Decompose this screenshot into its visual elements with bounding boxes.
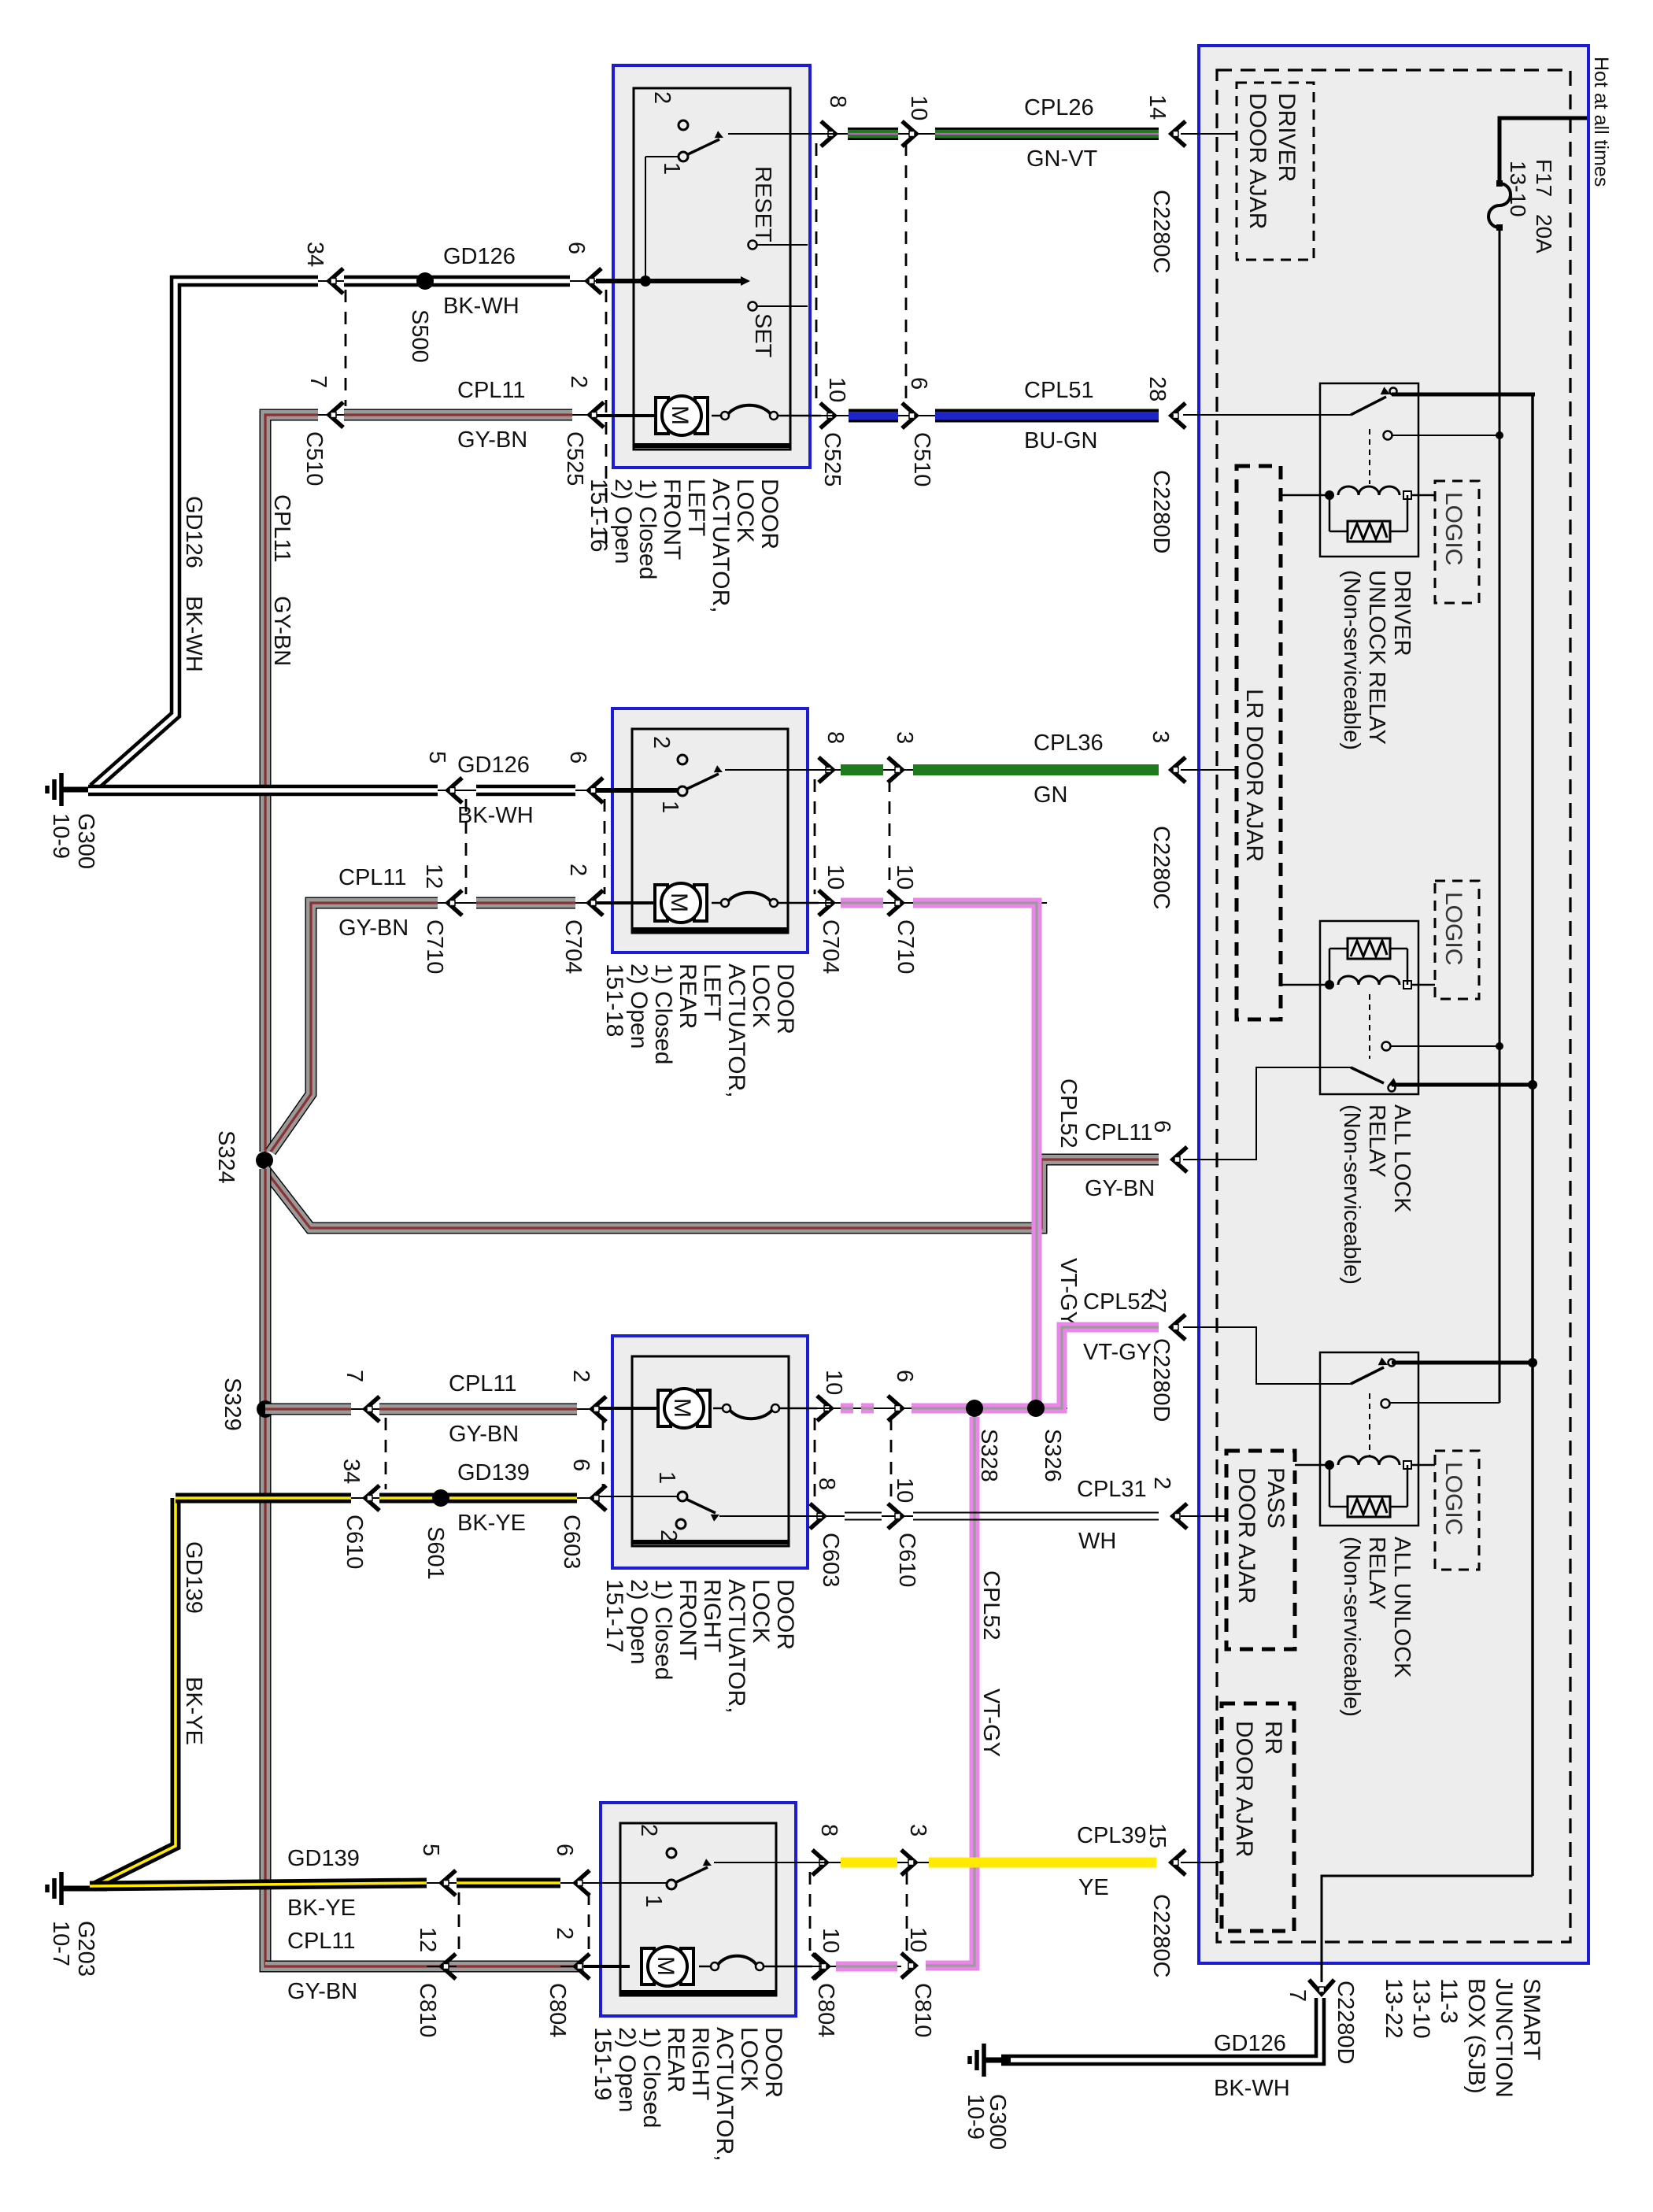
svg-text:7: 7	[1285, 1989, 1310, 2002]
svg-text:C510: C510	[909, 432, 934, 486]
svg-text:C710: C710	[422, 919, 447, 974]
svg-text:10: 10	[821, 1370, 846, 1395]
svg-text:7: 7	[305, 375, 331, 388]
svg-text:2) Open: 2) Open	[626, 1579, 652, 1664]
svg-text:LOCK: LOCK	[748, 964, 774, 1028]
svg-text:CPL31: CPL31	[1077, 1477, 1147, 1502]
svg-text:12: 12	[415, 1927, 440, 1952]
svg-text:RELAY: RELAY	[1364, 1104, 1389, 1178]
svg-text:(Non-serviceable): (Non-serviceable)	[1339, 1537, 1364, 1717]
svg-text:DOOR: DOOR	[772, 1579, 798, 1650]
svg-text:2: 2	[568, 1370, 594, 1382]
svg-text:VT-GY: VT-GY	[1056, 1258, 1081, 1326]
svg-text:F17: F17	[1532, 159, 1556, 197]
svg-text:C525: C525	[819, 432, 845, 486]
svg-text:M: M	[667, 405, 693, 425]
svg-text:13-22: 13-22	[1381, 1978, 1407, 2039]
svg-text:3: 3	[892, 731, 917, 744]
svg-text:C810: C810	[415, 1983, 440, 2037]
svg-text:151-16: 151-16	[586, 479, 612, 552]
svg-text:C525: C525	[562, 431, 587, 486]
svg-text:M: M	[669, 1398, 695, 1418]
svg-text:C2280C: C2280C	[1148, 1894, 1174, 1977]
svg-text:11-3: 11-3	[1436, 1978, 1462, 2024]
svg-text:BU-GN: BU-GN	[1024, 428, 1097, 453]
svg-text:6: 6	[1149, 1120, 1174, 1133]
svg-text:CPL39: CPL39	[1077, 1823, 1147, 1848]
svg-text:2: 2	[1149, 1477, 1174, 1489]
svg-text:GD139: GD139	[181, 1541, 206, 1614]
svg-text:6: 6	[552, 1844, 577, 1856]
svg-text:10: 10	[892, 864, 917, 890]
svg-text:LOCK: LOCK	[736, 2027, 762, 2092]
svg-text:GD126: GD126	[1214, 2031, 1286, 2056]
svg-text:151-18: 151-18	[601, 964, 627, 1037]
svg-text:ACTUATOR,: ACTUATOR,	[723, 964, 749, 1098]
svg-text:LEFT: LEFT	[683, 479, 709, 536]
svg-text:GN: GN	[1034, 782, 1068, 808]
svg-text:C610: C610	[342, 1515, 367, 1569]
svg-text:VT-GY: VT-GY	[1083, 1340, 1152, 1365]
svg-text:2: 2	[636, 1824, 661, 1837]
svg-text:10-7: 10-7	[48, 1921, 73, 1966]
svg-text:PASS: PASS	[1263, 1467, 1289, 1529]
svg-text:1: 1	[654, 1471, 679, 1484]
svg-text:10: 10	[906, 95, 931, 120]
svg-text:GD126: GD126	[181, 496, 206, 568]
svg-text:GY-BN: GY-BN	[1085, 1176, 1155, 1201]
svg-text:GD139: GD139	[457, 1460, 530, 1485]
svg-text:ACTUATOR,: ACTUATOR,	[723, 1579, 749, 1714]
svg-text:ACTUATOR,: ACTUATOR,	[712, 2027, 738, 2162]
svg-text:C603: C603	[818, 1533, 843, 1587]
svg-text:(Non-serviceable): (Non-serviceable)	[1339, 570, 1364, 750]
svg-text:1) Closed: 1) Closed	[650, 964, 676, 1064]
svg-text:BOX (SJB): BOX (SJB)	[1463, 1978, 1489, 2094]
svg-text:C710: C710	[893, 919, 918, 974]
svg-text:LEFT: LEFT	[699, 964, 725, 1021]
svg-text:GY-BN: GY-BN	[338, 916, 409, 941]
svg-text:ALL LOCK: ALL LOCK	[1389, 1104, 1414, 1213]
svg-text:6: 6	[568, 1459, 594, 1471]
svg-text:13-10: 13-10	[1506, 161, 1530, 217]
svg-text:CPL51: CPL51	[1024, 378, 1094, 403]
svg-text:GD126: GD126	[443, 244, 516, 269]
svg-text:GN-VT: GN-VT	[1026, 146, 1098, 172]
svg-text:CPL36: CPL36	[1034, 731, 1104, 756]
svg-text:G300: G300	[73, 813, 98, 869]
svg-text:1: 1	[659, 162, 684, 175]
svg-text:S500: S500	[407, 309, 432, 363]
svg-text:2: 2	[552, 1927, 577, 1940]
svg-text:2) Open: 2) Open	[626, 964, 652, 1049]
svg-text:BK-WH: BK-WH	[443, 294, 520, 319]
svg-text:C804: C804	[545, 1983, 570, 2037]
svg-text:10-9: 10-9	[48, 813, 73, 859]
svg-text:10: 10	[905, 1927, 930, 1952]
svg-text:8: 8	[816, 1824, 841, 1837]
svg-text:34: 34	[338, 1459, 364, 1484]
svg-text:10: 10	[892, 1478, 917, 1503]
svg-text:C2280D: C2280D	[1148, 1338, 1174, 1422]
svg-text:(Non-serviceable): (Non-serviceable)	[1339, 1104, 1364, 1285]
svg-text:SMART: SMART	[1518, 1978, 1544, 2060]
svg-text:2: 2	[656, 1530, 681, 1542]
svg-text:2: 2	[566, 375, 591, 388]
svg-text:C2280D: C2280D	[1148, 470, 1174, 553]
svg-text:8: 8	[814, 1478, 839, 1490]
svg-text:C804: C804	[813, 1983, 838, 2037]
svg-text:UNLOCK RELAY: UNLOCK RELAY	[1364, 570, 1389, 745]
svg-text:6: 6	[565, 751, 590, 764]
svg-text:3: 3	[1148, 731, 1173, 743]
svg-text:VT-GY: VT-GY	[978, 1689, 1004, 1757]
svg-text:DOOR: DOOR	[756, 479, 782, 549]
svg-text:3: 3	[905, 1824, 930, 1837]
svg-text:GY-BN: GY-BN	[287, 1979, 357, 2004]
svg-text:1: 1	[657, 801, 682, 813]
svg-text:GY-BN: GY-BN	[449, 1422, 519, 1447]
svg-text:CPL52: CPL52	[1083, 1289, 1153, 1315]
svg-text:CPL11: CPL11	[338, 865, 407, 890]
svg-text:C2280C: C2280C	[1148, 826, 1174, 909]
svg-text:S328: S328	[976, 1429, 1001, 1482]
svg-text:CPL11: CPL11	[287, 1929, 356, 1954]
svg-text:S326: S326	[1040, 1429, 1065, 1482]
svg-text:10: 10	[823, 864, 848, 890]
svg-text:RIGHT: RIGHT	[687, 2027, 713, 2100]
svg-text:LOGIC: LOGIC	[1440, 1462, 1466, 1535]
svg-text:ALL UNLOCK: ALL UNLOCK	[1389, 1537, 1414, 1678]
svg-text:2: 2	[649, 91, 675, 104]
svg-text:BK-YE: BK-YE	[457, 1511, 526, 1536]
svg-text:7: 7	[342, 1370, 367, 1382]
svg-text:2) Open: 2) Open	[610, 479, 636, 564]
svg-text:SET: SET	[750, 313, 775, 358]
svg-text:C510: C510	[301, 431, 327, 486]
svg-text:1) Closed: 1) Closed	[650, 1579, 676, 1680]
svg-text:C810: C810	[910, 1983, 935, 2037]
svg-text:1: 1	[641, 1895, 666, 1907]
svg-text:RESET: RESET	[750, 166, 775, 242]
svg-text:BK-YE: BK-YE	[181, 1677, 206, 1745]
svg-text:C704: C704	[818, 919, 843, 974]
svg-text:2: 2	[565, 864, 590, 876]
svg-text:ACTUATOR,: ACTUATOR,	[708, 479, 734, 613]
svg-text:8: 8	[823, 731, 848, 744]
svg-text:20A: 20A	[1532, 214, 1556, 253]
svg-text:28: 28	[1145, 376, 1170, 401]
svg-text:REAR: REAR	[675, 964, 701, 1029]
svg-text:6: 6	[906, 377, 931, 390]
svg-text:GD139: GD139	[287, 1846, 360, 1871]
svg-text:5: 5	[424, 751, 449, 764]
svg-text:1) Closed: 1) Closed	[634, 479, 660, 579]
svg-text:WH: WH	[1078, 1529, 1116, 1554]
svg-text:2: 2	[649, 736, 674, 749]
svg-text:10: 10	[824, 377, 849, 402]
svg-text:12: 12	[421, 864, 446, 889]
svg-text:CPL11: CPL11	[269, 494, 294, 563]
svg-text:5: 5	[418, 1844, 443, 1856]
svg-text:GY-BN: GY-BN	[457, 427, 527, 453]
svg-text:LOCK: LOCK	[748, 1579, 774, 1644]
svg-text:LOGIC: LOGIC	[1440, 892, 1466, 965]
svg-text:C610: C610	[894, 1533, 919, 1587]
svg-text:CPL11: CPL11	[457, 378, 526, 403]
svg-text:DOOR AJAR: DOOR AJAR	[1233, 1467, 1259, 1604]
svg-text:DOOR: DOOR	[760, 2027, 786, 2098]
svg-text:YE: YE	[1078, 1875, 1109, 1900]
svg-text:DOOR AJAR: DOOR AJAR	[1231, 1721, 1257, 1857]
svg-text:13-10: 13-10	[1408, 1978, 1434, 2039]
svg-text:CPL11: CPL11	[1085, 1120, 1153, 1145]
svg-text:CPL52: CPL52	[978, 1570, 1004, 1641]
svg-text:GY-BN: GY-BN	[269, 596, 294, 666]
svg-text:C2280C: C2280C	[1148, 190, 1174, 273]
svg-text:C704: C704	[560, 919, 586, 974]
svg-text:RELAY: RELAY	[1364, 1537, 1389, 1610]
svg-text:LOGIC: LOGIC	[1440, 492, 1466, 565]
svg-text:S601: S601	[423, 1526, 448, 1580]
svg-text:BK-WH: BK-WH	[457, 803, 534, 828]
svg-text:C2280D: C2280D	[1333, 1981, 1358, 2064]
svg-text:RIGHT: RIGHT	[699, 1579, 725, 1652]
svg-text:151-19: 151-19	[590, 2027, 616, 2100]
svg-text:LR DOOR AJAR: LR DOOR AJAR	[1241, 689, 1267, 862]
svg-text:BK-WH: BK-WH	[1214, 2076, 1290, 2101]
svg-text:M: M	[666, 893, 692, 912]
svg-text:DRIVER: DRIVER	[1274, 93, 1300, 182]
svg-text:LOCK: LOCK	[732, 479, 758, 543]
svg-text:BK-WH: BK-WH	[181, 596, 206, 672]
svg-text:8: 8	[825, 95, 850, 108]
svg-text:G203: G203	[73, 1921, 98, 1977]
svg-text:151-17: 151-17	[601, 1579, 627, 1652]
svg-text:1) Closed: 1) Closed	[638, 2027, 664, 2128]
svg-text:15: 15	[1145, 1823, 1170, 1848]
svg-text:6: 6	[564, 242, 589, 254]
svg-text:S329: S329	[220, 1378, 245, 1431]
svg-text:CPL26: CPL26	[1024, 95, 1094, 120]
svg-text:14: 14	[1145, 94, 1170, 120]
svg-text:FRONT: FRONT	[659, 479, 685, 560]
svg-text:CPL11: CPL11	[449, 1371, 517, 1396]
svg-text:CPL52: CPL52	[1056, 1078, 1081, 1149]
svg-text:GD126: GD126	[457, 753, 530, 778]
svg-text:10: 10	[818, 1928, 843, 1953]
svg-text:Hot at all times: Hot at all times	[1590, 57, 1612, 187]
svg-text:10-9: 10-9	[963, 2094, 988, 2140]
svg-text:DOOR: DOOR	[772, 964, 798, 1034]
svg-text:BK-YE: BK-YE	[287, 1896, 356, 1921]
svg-text:DOOR AJAR: DOOR AJAR	[1244, 93, 1270, 229]
svg-text:2) Open: 2) Open	[614, 2027, 640, 2112]
svg-text:DRIVER: DRIVER	[1389, 570, 1414, 657]
svg-text:FRONT: FRONT	[675, 1579, 701, 1660]
svg-text:REAR: REAR	[663, 2027, 689, 2092]
svg-text:C603: C603	[559, 1515, 584, 1569]
svg-text:S324: S324	[213, 1130, 239, 1184]
svg-text:RR: RR	[1260, 1721, 1286, 1755]
svg-text:JUNCTION: JUNCTION	[1491, 1978, 1517, 2098]
svg-text:6: 6	[892, 1370, 917, 1382]
svg-text:M: M	[653, 1956, 679, 1976]
svg-text:34: 34	[302, 242, 327, 267]
